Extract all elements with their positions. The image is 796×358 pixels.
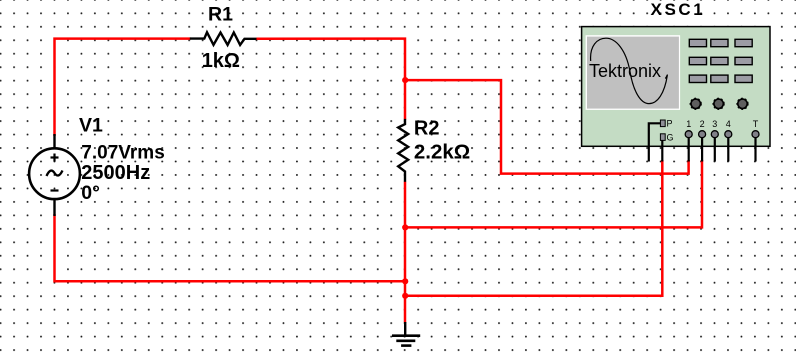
svg-text:G: G — [667, 133, 674, 143]
terminal connector circles 1 2 3 4 T — [685, 131, 759, 138]
svg-text:T: T — [753, 119, 759, 129]
node D junction — [402, 293, 408, 299]
terminal G square — [660, 134, 665, 141]
pin 2 — [701, 138, 703, 162]
resistor R1 — [190, 32, 257, 45]
oscilloscope XSC1 — [582, 27, 770, 162]
channel number labels 1 2 3 4 T — [686, 119, 759, 129]
wire node C to node D — [404, 281, 407, 296]
scope body — [582, 27, 770, 147]
svg-text:1kΩ: 1kΩ — [202, 50, 240, 72]
pin P (bent lead) — [649, 123, 661, 161]
wire node B to node C — [404, 227, 407, 281]
wire R2.2 to node B — [404, 182, 407, 229]
pin T — [754, 138, 756, 162]
terminal P square — [660, 120, 665, 127]
front panel buttons (3x3) — [689, 39, 752, 82]
svg-text:P: P — [667, 119, 673, 129]
wire node D to XSC1 ground terminal G — [405, 160, 662, 296]
wire node B to XSC1 terminal 2 — [405, 160, 702, 227]
wire node D to ground — [404, 296, 407, 323]
svg-text:2.2kΩ: 2.2kΩ — [414, 140, 470, 163]
pin 1 — [688, 138, 690, 162]
svg-text:4: 4 — [726, 119, 731, 129]
wire node A to R2.1 — [404, 80, 407, 120]
svg-text:3: 3 — [712, 119, 717, 129]
front panel knobs — [691, 99, 747, 108]
svg-text:Tektronix: Tektronix — [589, 61, 661, 81]
svg-text:0°: 0° — [81, 182, 100, 204]
wire V1.- to node C (bottom loop) — [55, 214, 406, 281]
pin 4 — [727, 138, 729, 162]
node B junction — [402, 224, 408, 230]
AC voltage source V1 — [29, 134, 80, 216]
node C junction — [402, 278, 408, 284]
svg-text:7.07Vrms: 7.07Vrms — [81, 143, 164, 164]
svg-text:XSC1: XSC1 — [651, 0, 706, 19]
pin G — [661, 140, 663, 161]
resistor R2 — [398, 119, 408, 182]
svg-text:V1: V1 — [79, 115, 103, 137]
svg-text:2: 2 — [700, 119, 705, 129]
svg-text:R2: R2 — [414, 118, 440, 140]
wire node A to XSC1 terminal 1 — [405, 80, 689, 174]
ground — [392, 322, 420, 346]
svg-text:R1: R1 — [208, 3, 233, 25]
node A junction — [402, 77, 408, 83]
screen sine wave trace — [591, 38, 668, 103]
V1 value labels (7.07Vrms 2500Hz 0&#176;) — [81, 143, 164, 205]
wire R1.2 to node A — [257, 39, 406, 80]
svg-text:1: 1 — [686, 119, 691, 129]
scope screen — [586, 35, 681, 110]
pin 3 — [714, 138, 716, 162]
wire V1.+ to R1.1 (left vertical and top horizontal) — [55, 39, 191, 136]
svg-text:2500Hz: 2500Hz — [81, 162, 150, 184]
